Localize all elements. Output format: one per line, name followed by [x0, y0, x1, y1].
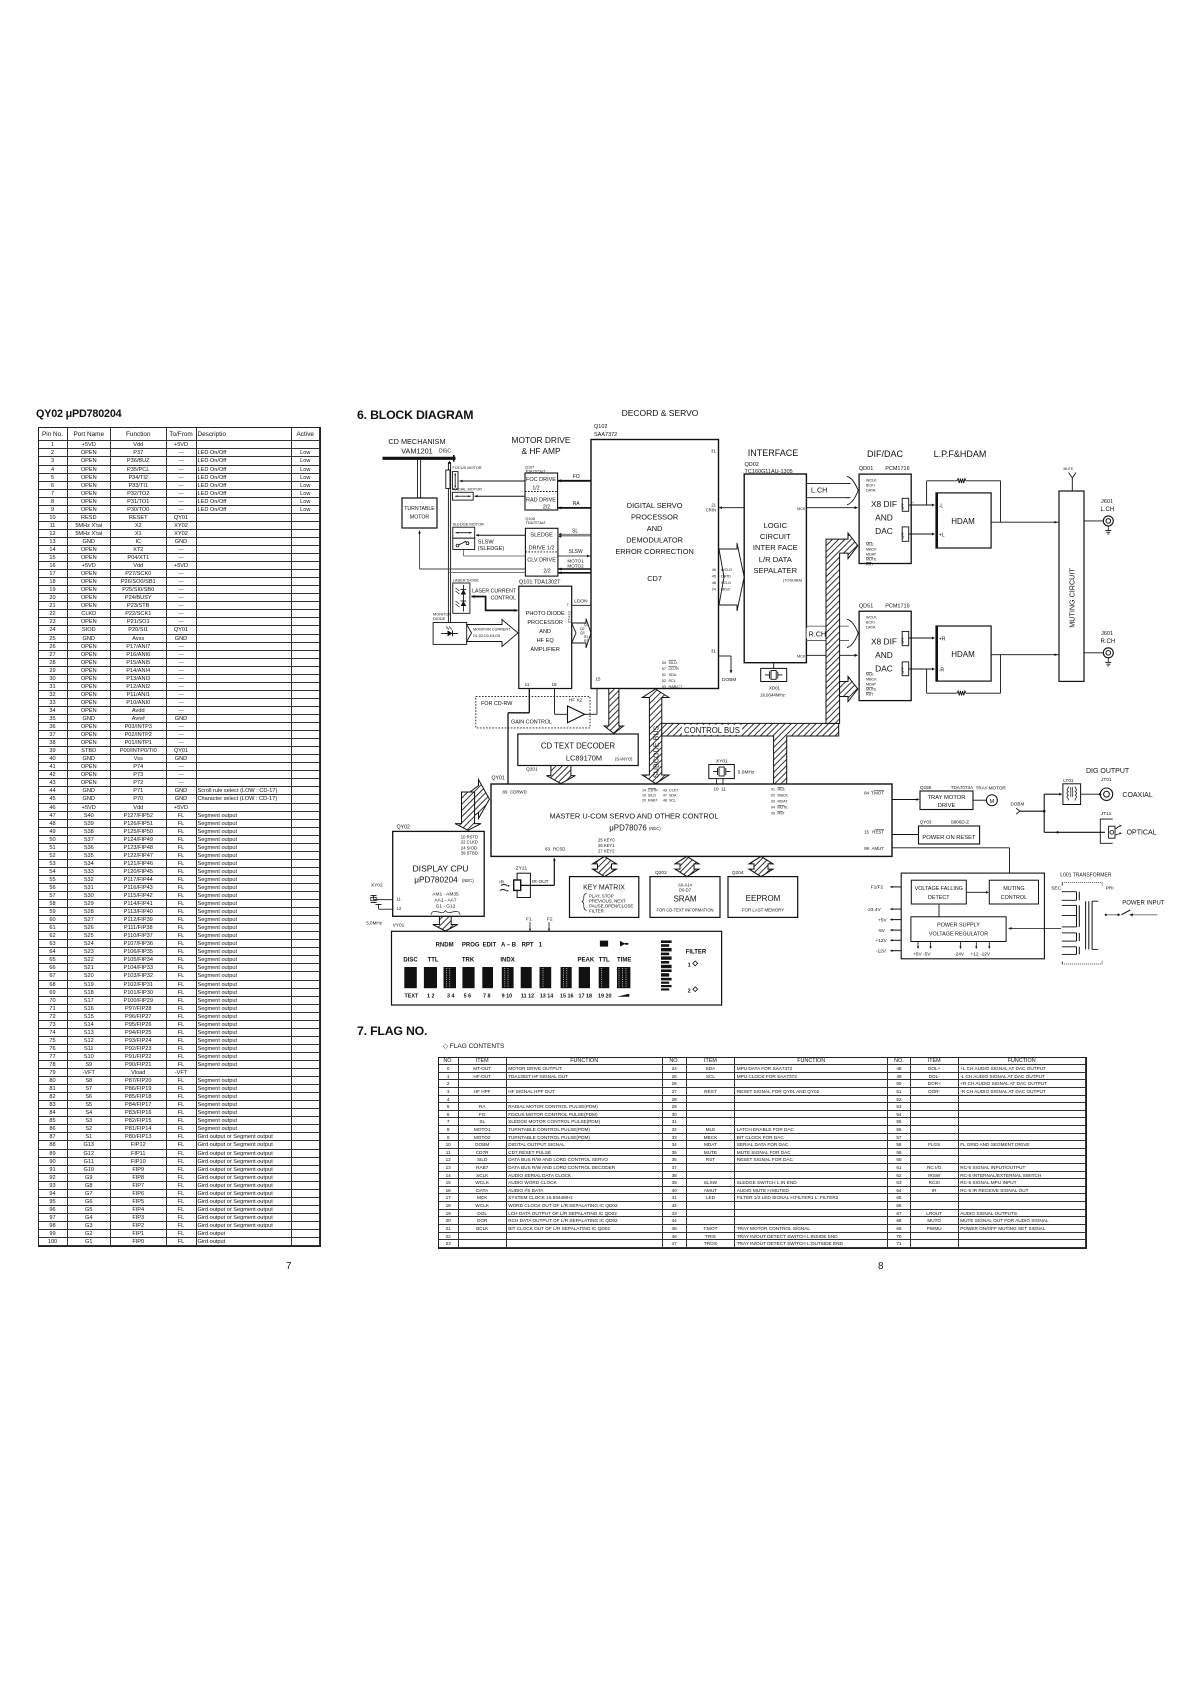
- svg-text:SRAM: SRAM: [673, 895, 696, 904]
- svg-text:FOR CD-TEXT INFORMATION: FOR CD-TEXT INFORMATION: [657, 908, 714, 913]
- svg-text:POWER SUPPLY: POWER SUPPLY: [937, 923, 980, 929]
- driver Q107 TDA7073aT: [525, 465, 558, 510]
- svg-text:R.CH: R.CH: [1101, 639, 1116, 645]
- flag contents legend: [443, 1042, 504, 1050]
- svg-text:57: 57: [662, 667, 666, 671]
- power on reset QY03 S806D-Z: [919, 820, 980, 845]
- wire turntable drive MOTO: [418, 531, 525, 573]
- svg-text:SCL: SCL: [669, 679, 676, 683]
- svg-text:TTL: TTL: [428, 957, 439, 963]
- svg-text:22 CLKD: 22 CLKD: [461, 840, 478, 845]
- svg-text:L.CH: L.CH: [811, 486, 827, 495]
- bus master to key matrix: [593, 856, 617, 876]
- svg-text:16.9344MHz: 16.9344MHz: [760, 693, 785, 698]
- svg-text:F2: F2: [547, 917, 553, 923]
- svg-text:L.CH: L.CH: [1101, 507, 1115, 513]
- svg-text:15 16: 15 16: [560, 993, 574, 999]
- sledge motor: [453, 522, 484, 539]
- svg-text:MCK: MCK: [797, 507, 806, 511]
- disc: [383, 449, 456, 462]
- svg-text:IR-OUT: IR-OUT: [532, 879, 549, 885]
- bus SUBCODE: [642, 689, 669, 784]
- svg-text:PROG: PROG: [462, 942, 480, 948]
- wire SLSW from switch: [464, 550, 526, 557]
- svg-text:53: 53: [662, 685, 666, 689]
- svg-text:OPTICAL: OPTICAL: [1127, 830, 1157, 837]
- svg-text:DRIVE 1/2: DRIVE 1/2: [529, 546, 555, 552]
- turntable motor: [402, 498, 437, 528]
- svg-text:BCKI: BCKI: [866, 621, 875, 625]
- crystal XY02: [366, 883, 393, 926]
- svg-text:DIGITAL SERVO: DIGITAL SERVO: [627, 501, 683, 510]
- gain control block FOR CD-RW: [476, 696, 590, 728]
- connector JT01 COAXIAL: [1081, 768, 1153, 800]
- title QY02 uPD780204: [36, 408, 121, 420]
- svg-text:7 8: 7 8: [483, 993, 491, 999]
- wire FO: [558, 474, 601, 484]
- IR receiver ZY21: [499, 866, 548, 898]
- svg-text:TTL: TTL: [599, 957, 610, 963]
- spindle wire: [418, 460, 421, 498]
- svg-text:JT01: JT01: [1101, 777, 1112, 783]
- svg-text:20: 20: [642, 799, 646, 803]
- svg-text:F1: F1: [526, 917, 532, 923]
- svg-text:D0-D7: D0-D7: [679, 888, 692, 893]
- svg-text:84: 84: [864, 790, 869, 795]
- power output wires: [867, 885, 902, 955]
- svg-text:CD MECHANISM: CD MECHANISM: [388, 437, 445, 446]
- svg-text:LT01: LT01: [1063, 778, 1074, 783]
- svg-text:WCLK: WCLK: [866, 616, 877, 620]
- svg-text:MONITOR CURRENT: MONITOR CURRENT: [473, 628, 511, 632]
- connector J601 L.CH: [1084, 499, 1114, 534]
- svg-text:X8 DIF: X8 DIF: [871, 637, 897, 647]
- svg-text:+: +: [912, 501, 914, 505]
- power supply voltage regulator: [911, 917, 1006, 942]
- heading 7. FLAG NO.: [357, 1024, 427, 1038]
- svg-text:Q1: Q1: [584, 623, 589, 627]
- svg-text:MOTOR DRIVE: MOTOR DRIVE: [512, 435, 571, 445]
- wire sledge drive: [476, 534, 525, 537]
- svg-text:24: 24: [712, 588, 716, 592]
- svg-text:DEMODULATOR: DEMODULATOR: [626, 536, 683, 545]
- svg-text:X8 DIF: X8 DIF: [871, 499, 897, 509]
- svg-text:T.MOT: T.MOT: [871, 790, 884, 795]
- svg-text:HDAM: HDAM: [951, 517, 975, 526]
- svg-text:1: 1: [688, 963, 691, 969]
- svg-text:31: 31: [711, 449, 716, 454]
- wire T.MOT: [892, 798, 920, 801]
- svg-text:SLSW: SLSW: [569, 549, 583, 555]
- svg-text:EDIT: EDIT: [483, 942, 497, 948]
- svg-text:RA: RA: [573, 501, 581, 507]
- wire radial drive: [475, 495, 526, 498]
- svg-text:PROCESSOR: PROCESSOR: [631, 513, 678, 522]
- svg-text:-24V: -24V: [954, 952, 965, 958]
- svg-text:MUTING: MUTING: [1003, 886, 1024, 892]
- svg-text:9 10: 9 10: [502, 993, 512, 999]
- svg-text:HF EQ: HF EQ: [537, 638, 555, 644]
- svg-text:SAA7372: SAA7372: [594, 432, 617, 438]
- sram Q202: [650, 870, 720, 917]
- svg-text:5.0MHz: 5.0MHz: [366, 921, 383, 926]
- svg-text:MDAT: MDAT: [866, 553, 877, 557]
- svg-text:Q201: Q201: [526, 767, 538, 773]
- svg-text:31: 31: [711, 649, 716, 654]
- svg-text:ZY21: ZY21: [516, 866, 528, 872]
- svg-text:PCM1716: PCM1716: [885, 466, 909, 472]
- power input switch: [1105, 901, 1165, 917]
- svg-text:Q202: Q202: [655, 870, 667, 876]
- svg-text:MASTER U-COM SERVO AND OTHER C: MASTER U-COM SERVO AND OTHER CONTROL: [549, 811, 718, 820]
- svg-text:M: M: [990, 799, 995, 805]
- feedback resistor R: [927, 653, 1059, 695]
- svg-text:19 20: 19 20: [598, 993, 612, 999]
- svg-text:DIG OUTPUT: DIG OUTPUT: [1086, 768, 1130, 775]
- hdam L: [936, 493, 991, 548]
- svg-text:KEY MATRIX: KEY MATRIX: [583, 885, 625, 892]
- svg-text:(SLEDGE): (SLEDGE): [478, 546, 505, 552]
- svg-text:(TOSHIBA): (TOSHIBA): [783, 579, 803, 583]
- radial motor: [452, 487, 482, 500]
- svg-text:SDA: SDA: [669, 794, 677, 798]
- display filter labels: [686, 950, 707, 995]
- svg-text:7: 7: [567, 602, 569, 607]
- svg-text:TEXT: TEXT: [405, 993, 419, 999]
- svg-text:17 18: 17 18: [579, 993, 593, 999]
- bus SAA to CD text decoder: [604, 689, 623, 734]
- svg-text:TRAY MOTOR: TRAY MOTOR: [927, 795, 965, 801]
- svg-text:LASER DIODE: LASER DIODE: [453, 578, 480, 583]
- display segment blocks: [404, 967, 630, 988]
- svg-text:11: 11: [397, 897, 402, 902]
- data arrow SAA to interface: [719, 543, 744, 611]
- transformer L001: [1051, 873, 1114, 965]
- wire QD01 to HDAM L: [909, 501, 935, 535]
- svg-text:SCL: SCL: [669, 799, 676, 803]
- svg-text:L.P.F&HDAM: L.P.F&HDAM: [934, 449, 987, 459]
- mute control symbol: [1064, 467, 1077, 491]
- svg-text:(NEC): (NEC): [649, 826, 661, 831]
- svg-text:FOR LAST MEMORY: FOR LAST MEMORY: [742, 908, 784, 913]
- crystal XY01: [709, 759, 755, 792]
- svg-text:TIME: TIME: [617, 957, 631, 963]
- muting control: [989, 880, 1038, 904]
- dac QD51 PCM1716: [859, 604, 911, 701]
- svg-text:J601: J601: [1101, 631, 1113, 637]
- wire DOBM: [719, 656, 737, 683]
- svg-text:RAB7: RAB7: [648, 799, 657, 803]
- wire MCK to QD01: [806, 506, 866, 510]
- svg-text:MUTE: MUTE: [778, 806, 789, 810]
- svg-text:RPT: RPT: [522, 942, 534, 948]
- svg-text:CONTROL: CONTROL: [491, 596, 516, 602]
- svg-text:CRIN: CRIN: [706, 508, 716, 513]
- svg-text:QY03: QY03: [920, 820, 932, 825]
- svg-text:MUTE: MUTE: [866, 558, 877, 562]
- svg-text:XY02: XY02: [371, 883, 383, 889]
- svg-text:AND: AND: [647, 524, 663, 533]
- svg-text:MISC: MISC: [721, 588, 731, 592]
- svg-text:QD01: QD01: [859, 466, 873, 472]
- svg-text:LDON: LDON: [574, 599, 588, 605]
- wire LDON: [572, 599, 601, 609]
- svg-text:ERROR CORRECTION: ERROR CORRECTION: [615, 547, 693, 556]
- wire RA: [558, 501, 601, 511]
- svg-text:02: 02: [771, 794, 775, 798]
- svg-text:AND: AND: [539, 629, 551, 635]
- svg-text:HF X2: HF X2: [569, 698, 582, 703]
- svg-text:DETECT: DETECT: [928, 895, 950, 901]
- svg-text:-12V: -12V: [876, 949, 887, 955]
- svg-text:26 KEY1: 26 KEY1: [598, 843, 615, 848]
- svg-text:MBCK: MBCK: [866, 548, 877, 552]
- bus CONTROL: [662, 723, 839, 784]
- svg-text:03: 03: [771, 800, 775, 804]
- svg-text:BCKI: BCKI: [866, 484, 875, 488]
- bus master to eeprom: [749, 856, 773, 876]
- power supply block: [901, 873, 1044, 959]
- svg-text:Q102: Q102: [594, 424, 607, 430]
- svg-text:+L: +L: [939, 533, 945, 539]
- svg-text:DATD: DATD: [721, 575, 731, 579]
- wire detect to regulator: [938, 904, 940, 917]
- svg-text:43: 43: [663, 789, 667, 793]
- svg-text:CONTROL BUS: CONTROL BUS: [684, 726, 740, 735]
- svg-text:CLKT: CLKT: [669, 789, 679, 793]
- transformer LT01: [1063, 778, 1081, 805]
- svg-text:FILTER: FILTER: [589, 909, 604, 914]
- svg-text:WCLD: WCLD: [721, 568, 732, 572]
- svg-text:PEAK: PEAK: [578, 957, 595, 963]
- svg-text:10: 10: [714, 787, 720, 792]
- svg-text:14: 14: [642, 789, 646, 793]
- svg-text:18: 18: [551, 682, 557, 687]
- svg-text:FO: FO: [573, 474, 580, 480]
- svg-text:1 2: 1 2: [427, 993, 435, 999]
- svg-text:3 4: 3 4: [447, 993, 455, 999]
- svg-text:AND: AND: [875, 513, 893, 523]
- svg-text:RAD DRIVE: RAD DRIVE: [526, 498, 556, 504]
- svg-text:RNDM: RNDM: [436, 942, 454, 948]
- svg-text:2/2: 2/2: [543, 569, 550, 575]
- svg-text:39 STBD: 39 STBD: [461, 851, 478, 856]
- svg-text:DIODE: DIODE: [433, 616, 446, 621]
- svg-text:MUTE: MUTE: [1064, 467, 1074, 471]
- svg-text:DATA: DATA: [866, 489, 876, 493]
- svg-text:PHOTO DIODE: PHOTO DIODE: [526, 611, 565, 617]
- svg-text:SILD: SILD: [648, 794, 656, 798]
- svg-text:48: 48: [663, 799, 667, 803]
- svg-text:5.0MHz: 5.0MHz: [738, 770, 755, 776]
- display cpu QY02 uPD780204: [393, 825, 485, 917]
- svg-text:(SANYO): (SANYO): [615, 756, 633, 761]
- monitor current arrow: [467, 620, 539, 647]
- svg-text:DAC: DAC: [875, 664, 893, 674]
- svg-text:F1/F2: F1/F2: [871, 885, 884, 891]
- svg-text:QY01: QY01: [492, 776, 505, 782]
- svg-text:CDRWD: CDRWD: [510, 790, 527, 795]
- svg-text:65432: 65432: [568, 611, 572, 624]
- svg-text:19: 19: [642, 794, 646, 798]
- svg-text:+R: +R: [939, 637, 946, 643]
- svg-text:SEPALATER: SEPALATER: [753, 566, 797, 575]
- laser diode: [453, 578, 480, 614]
- Q101 output arrow: [568, 611, 596, 652]
- svg-text:DATA: DATA: [866, 626, 876, 630]
- svg-text:83: 83: [545, 847, 550, 852]
- svg-text:Q204: Q204: [732, 870, 744, 876]
- svg-text:R2: R2: [584, 639, 588, 643]
- wire DOBM to dig output: [1011, 793, 1106, 834]
- wire pin18 to HF X2: [555, 689, 568, 715]
- display barcode: [661, 940, 672, 990]
- svg-text:+12V: +12V: [875, 938, 887, 944]
- svg-text:11 12: 11 12: [521, 993, 534, 999]
- wire F1 F2: [526, 917, 553, 932]
- svg-text:VY01: VY01: [393, 923, 405, 929]
- svg-text:DISC: DISC: [439, 449, 451, 455]
- muting circuit: [1059, 491, 1084, 681]
- svg-text:-5V: -5V: [878, 928, 886, 934]
- svg-text:SCLD: SCLD: [721, 581, 731, 585]
- svg-text:01: 01: [771, 788, 775, 792]
- key matrix: [570, 877, 639, 918]
- light path wire: [448, 461, 451, 623]
- svg-text:RST: RST: [866, 693, 874, 697]
- svg-text:SLEDGE: SLEDGE: [530, 533, 553, 539]
- crystal XD01: [760, 663, 787, 698]
- svg-text:MOTOR: MOTOR: [410, 515, 429, 521]
- svg-text:DECORD & SERVO: DECORD & SERVO: [622, 408, 699, 418]
- svg-text:15: 15: [864, 830, 869, 835]
- svg-text:L001 TRANSFORMER: L001 TRANSFORMER: [1060, 873, 1111, 879]
- svg-text:MLE: MLE: [778, 788, 786, 792]
- svg-text:CONTROL: CONTROL: [1001, 895, 1027, 901]
- svg-text:SUBCODE BUS: SUBCODE BUS: [652, 725, 661, 778]
- svg-text:VAM1201: VAM1201: [401, 447, 433, 456]
- svg-text:2/2: 2/2: [543, 505, 550, 511]
- sledge switch SLSW: [453, 538, 505, 552]
- svg-text:2: 2: [688, 988, 691, 994]
- svg-text:MLE: MLE: [866, 543, 874, 547]
- svg-text:MLE: MLE: [866, 673, 874, 677]
- controller QY01 uPD78076 master u-com: [491, 776, 892, 857]
- amplifier Q101 TDA1302T: [519, 580, 572, 689]
- svg-text:15: 15: [596, 677, 601, 682]
- svg-text:SLEDGE MOTOR: SLEDGE MOTOR: [453, 522, 484, 527]
- svg-text:GAIN CONTROL: GAIN CONTROL: [511, 720, 552, 726]
- wire laser current control: [472, 589, 525, 615]
- bus decoder to master: [546, 766, 575, 784]
- display indicator row: [436, 941, 629, 949]
- svg-text:05: 05: [771, 812, 775, 816]
- svg-text:R.CH: R.CH: [809, 630, 827, 639]
- svg-text:PCM1716: PCM1716: [885, 604, 909, 610]
- svg-text:QY02: QY02: [397, 825, 410, 831]
- heading 6. BLOCK DIAGRAM: [357, 408, 473, 422]
- page number 8: [878, 1261, 883, 1272]
- wire L.CH: [806, 477, 858, 505]
- wire MCK CRIN: [719, 506, 755, 510]
- svg-text:-L: -L: [939, 504, 944, 510]
- interface QD02 TC160G11AU-1305: [744, 462, 806, 663]
- svg-text:MUTE: MUTE: [866, 688, 877, 692]
- driver Q108 TDA7073aT: [525, 517, 558, 576]
- svg-text:SDA: SDA: [669, 673, 677, 677]
- svg-text:MUTING CIRCUIT: MUTING CIRCUIT: [1068, 568, 1077, 628]
- display number row: [405, 993, 630, 999]
- pin table QY02: [38, 427, 321, 1247]
- svg-text:89: 89: [503, 790, 508, 795]
- svg-text:QD51: QD51: [859, 604, 873, 610]
- svg-text:MDAT: MDAT: [866, 683, 877, 687]
- svg-text:48: 48: [712, 581, 716, 585]
- svg-text:51: 51: [662, 673, 666, 677]
- svg-text:DRIVE: DRIVE: [938, 803, 956, 809]
- svg-text:45: 45: [712, 575, 716, 579]
- connector J601 R.CH: [1084, 631, 1115, 666]
- svg-text:VOLTAGE REGULATOR: VOLTAGE REGULATOR: [929, 932, 988, 938]
- svg-text:DOBM: DOBM: [722, 677, 736, 683]
- svg-text:POWER INPUT: POWER INPUT: [1122, 901, 1165, 907]
- svg-text:RAB/C7: RAB/C7: [669, 685, 683, 689]
- svg-text:XY01: XY01: [716, 759, 728, 765]
- svg-text:13 14: 13 14: [540, 993, 554, 999]
- svg-text:CD TEXT DECODER: CD TEXT DECODER: [541, 742, 616, 751]
- svg-text:-23.4V: -23.4V: [867, 907, 882, 913]
- svg-text:5 6: 5 6: [464, 993, 472, 999]
- svg-text:DOBM: DOBM: [1011, 802, 1025, 807]
- svg-text:LASER CURRENT: LASER CURRENT: [472, 589, 517, 595]
- svg-text:LPF: LPF: [901, 667, 905, 673]
- wire regulator input: [1009, 927, 1062, 930]
- svg-text:+5V: +5V: [878, 917, 887, 923]
- svg-text:AMPLIFIER: AMPLIFIER: [530, 647, 560, 653]
- wire focus drive: [460, 480, 526, 483]
- svg-text:CD7R: CD7R: [669, 667, 680, 671]
- wire pin11 gain control: [508, 689, 529, 785]
- page number 7: [286, 1261, 291, 1272]
- svg-text:μPD780204: μPD780204: [414, 876, 458, 885]
- svg-text:FOCUS MOTOR: FOCUS MOTOR: [453, 465, 482, 470]
- svg-text:MOTO2: MOTO2: [567, 563, 584, 568]
- wire SL: [558, 528, 601, 538]
- svg-text:DISPLAY CPU: DISPLAY CPU: [412, 864, 468, 874]
- svg-text:DISC: DISC: [403, 957, 418, 963]
- svg-text:POWER ON RESET: POWER ON RESET: [922, 835, 976, 841]
- svg-text:TRK: TRK: [462, 957, 475, 963]
- svg-text:HDAM: HDAM: [951, 650, 975, 659]
- svg-text:S806D-Z: S806D-Z: [951, 820, 970, 825]
- dac QD01 PCM1716: [859, 466, 911, 567]
- svg-text:EEPROM: EEPROM: [746, 894, 781, 903]
- svg-text:REST: REST: [872, 830, 884, 835]
- display mode row: [403, 957, 631, 963]
- svg-text:& HF AMP: & HF AMP: [521, 446, 561, 456]
- tray motor drive Q159 TDA7073A: [920, 785, 974, 810]
- bus control to DACs: [826, 533, 858, 723]
- svg-text:11: 11: [721, 787, 726, 792]
- svg-text:+12 -12V: +12 -12V: [971, 952, 991, 958]
- wire RCSD: [521, 858, 556, 886]
- svg-text:47: 47: [663, 794, 667, 798]
- svg-text:46: 46: [712, 568, 716, 572]
- svg-text:11: 11: [525, 682, 530, 687]
- svg-text:CD7R: CD7R: [648, 789, 658, 793]
- svg-text:LPF: LPF: [901, 503, 905, 509]
- tray motor: [973, 786, 1006, 806]
